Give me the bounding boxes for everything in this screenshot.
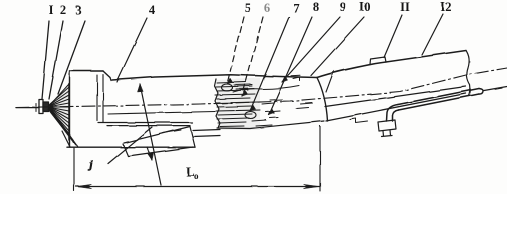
dimension line L0 [76, 186, 319, 188]
collar left jagged edge [215, 79, 221, 128]
spray cone outline [49, 84, 78, 147]
main centerline (dash-dot) [16, 68, 507, 108]
left block bottom edge [67, 146, 195, 148]
neck upper line [193, 130, 220, 131]
dimension extension line right [319, 126, 321, 191]
step box bottom front edge [128, 147, 193, 156]
leader line 11 [384, 15, 402, 58]
barrel bottom outer double line [98, 122, 192, 124]
bottom edge bracket [350, 119, 368, 124]
collar right edge / joint [317, 78, 328, 122]
axis stem [16, 107, 39, 109]
collar internal wavy line [233, 86, 299, 93]
spray cone fan hatch [48, 87, 76, 145]
label L0 [186, 164, 199, 181]
tube near-side silhouette [326, 94, 466, 122]
svg-text:3: 3 [75, 3, 81, 17]
svg-text:I: I [49, 3, 54, 17]
dimension arrow right [304, 184, 320, 188]
small down arrow on shaft [147, 147, 152, 160]
bypass pipe stub beyond break [484, 87, 507, 91]
svg-text:6: 6 [264, 1, 270, 15]
arrowhead leader 5 [227, 78, 233, 84]
left block chamfer [103, 71, 110, 78]
j leader arrow [108, 127, 152, 164]
dimension arrow left [76, 184, 92, 188]
bypass pipe end cap [479, 89, 483, 95]
leader line 2 [49, 21, 63, 99]
svg-text:5: 5 [245, 1, 251, 15]
neck lower line [193, 136, 220, 137]
left block top edge [70, 70, 104, 72]
svg-text:I0: I0 [359, 0, 370, 14]
barrel bore bottom line [108, 112, 215, 115]
arrowhead leader 8 [269, 109, 275, 115]
leader line 10 [311, 17, 364, 76]
spray cone smudge wash [49, 86, 69, 140]
rotation arrow (vertical) [140, 84, 161, 185]
tube top edge [317, 51, 466, 78]
arrowhead leader 9 [282, 76, 288, 82]
pipe flange [378, 120, 396, 131]
spray cone base [68, 84, 70, 141]
arrowhead leader 7 [250, 105, 256, 111]
collar hatch smudge wash [216, 78, 260, 130]
tube bottom edge [325, 87, 466, 107]
barrel top edge [112, 75, 317, 80]
top edge notch jog [110, 78, 111, 81]
leader line 4 [117, 18, 147, 82]
svg-text:9: 9 [340, 0, 346, 14]
step box top edge [124, 127, 190, 144]
leader line 1 [42, 21, 49, 99]
pipe lower stub [382, 130, 393, 137]
svg-text:8: 8 [313, 0, 319, 14]
step box right edge [190, 127, 195, 148]
arrowhead leader 6 [242, 90, 248, 96]
label j [87, 159, 93, 171]
svg-text:2: 2 [60, 3, 66, 17]
collar thread hatch [215, 82, 312, 127]
leader line 3 [58, 21, 85, 94]
step box centre dash [163, 130, 181, 133]
leader line 9 [282, 17, 340, 82]
svg-text:7: 7 [293, 1, 299, 15]
bypass pipe bottom line [399, 94, 480, 110]
bracket mark near node 9 [293, 77, 300, 81]
port ellipse 5 [222, 84, 233, 91]
left block left edge [69, 71, 71, 147]
tube end break line [466, 51, 470, 97]
svg-text:4: 4 [149, 3, 156, 17]
svg-text:II: II [400, 0, 410, 14]
dimension extension line left [73, 148, 75, 191]
leader line 8 [269, 17, 312, 115]
leader line 7 [250, 17, 289, 111]
lug on tube top [370, 57, 386, 64]
tail dash under leader 8 arrow [270, 117, 278, 120]
tick on barrel top edge [291, 74, 300, 77]
svg-text:I2: I2 [440, 0, 451, 14]
left block inner vertical a [96, 75, 98, 121]
stray stroke near junction [326, 71, 334, 93]
nozzle tip block [39, 100, 43, 114]
lower cone bevel [62, 131, 70, 147]
left block inner vertical b [102, 75, 104, 122]
collar bottom edge [217, 121, 324, 129]
leader line 12 [422, 14, 443, 55]
pipe elbow [387, 105, 399, 122]
leader line 6 [242, 17, 263, 96]
part number labels [49, 0, 452, 17]
bypass pipe top line [398, 89, 479, 105]
svg-text:j: j [87, 159, 93, 171]
leader line 5 [227, 17, 244, 84]
svg-text:o: o [194, 171, 199, 181]
step box left edge [123, 144, 128, 156]
port ellipse 7 [245, 112, 256, 119]
